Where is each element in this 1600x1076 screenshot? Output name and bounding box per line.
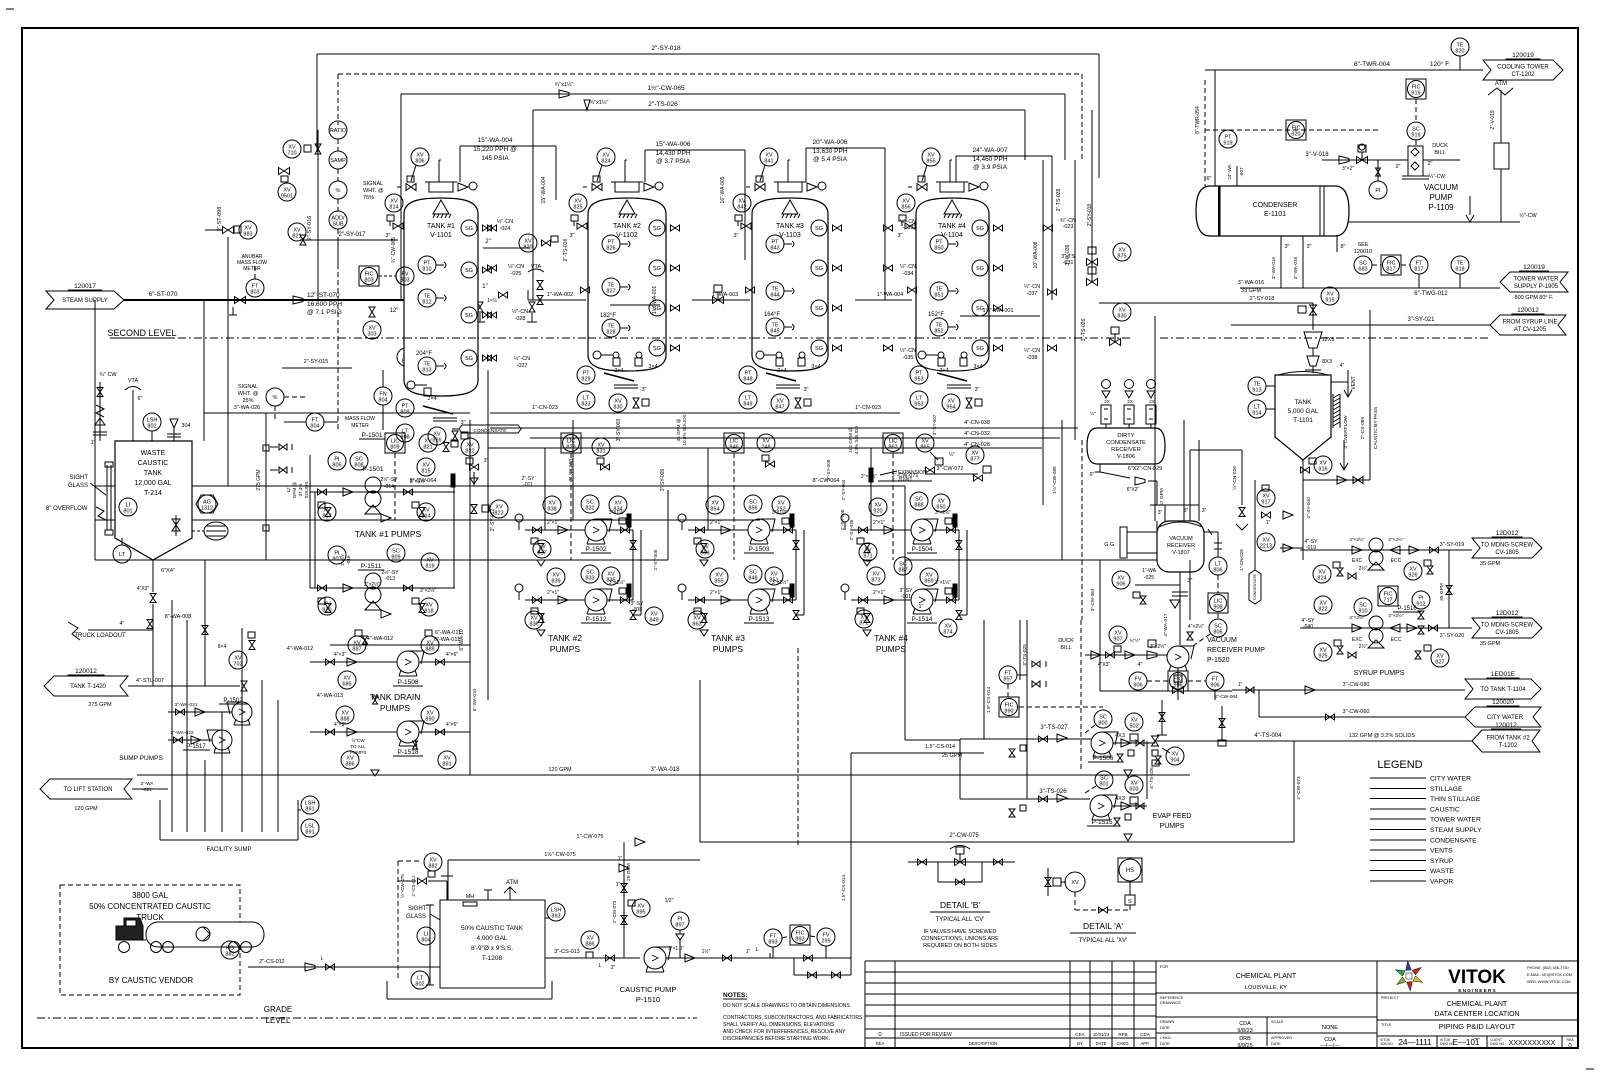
- svg-text:TANK: TANK: [144, 470, 162, 477]
- svg-text:25 GPM: 25 GPM: [626, 863, 632, 881]
- svg-text:SAMP: SAMP: [330, 158, 346, 164]
- svg-text:2"-SY-017: 2"-SY-017: [339, 232, 367, 238]
- svg-text:3"-TS-025: 3"-TS-025: [1022, 644, 1028, 666]
- svg-text:CAUSTIC PUMP: CAUSTIC PUMP: [620, 985, 677, 994]
- wire 2"-TS-026 run: [533, 101, 1025, 300]
- svg-text:SOLIDS: SOLIDS: [304, 482, 309, 499]
- svg-text:603: 603: [1129, 787, 1138, 793]
- instrument RATIO: [329, 121, 347, 139]
- pump P-1502: [581, 519, 612, 553]
- svg-text:821: 821: [292, 234, 301, 240]
- svg-text:4"×2½": 4"×2½": [1188, 623, 1204, 630]
- wire 4-TS-004: [1152, 733, 1473, 746]
- svg-text:WASTE: WASTE: [141, 450, 166, 457]
- svg-text:831: 831: [596, 449, 605, 455]
- wire CN-026: [1190, 450, 1248, 560]
- instrument PT-829: [577, 366, 595, 384]
- instrument FT-817: [1401, 256, 1428, 288]
- sight glass SG: [972, 340, 1003, 356]
- svg-text:3"-TS-026: 3"-TS-026: [1039, 789, 1067, 795]
- svg-text:SIGHT-: SIGHT-: [408, 906, 428, 912]
- svg-text:1": 1": [746, 949, 751, 955]
- riser tank4 pumps: [851, 448, 871, 530]
- svg-text:1": 1": [618, 856, 623, 862]
- svg-text:4"-CN-032: 4"-CN-032: [964, 431, 990, 437]
- svg-text:3"×1½": 3"×1½": [609, 509, 625, 516]
- sight glass SG: [972, 300, 1003, 316]
- svg-text:820: 820: [523, 245, 532, 251]
- instrument XV-830: [609, 394, 649, 412]
- instrument XV-927: [1415, 645, 1449, 667]
- label 2.5 syr1: [1348, 565, 1368, 579]
- svg-text:890: 890: [425, 717, 434, 723]
- svg-text:L: L: [321, 956, 324, 962]
- svg-text:4"×2½": 4"×2½": [1349, 614, 1365, 621]
- svg-text:1": 1": [482, 284, 487, 290]
- svg-text:889: 889: [425, 647, 434, 653]
- instrument XV-872: [855, 610, 873, 628]
- svg-text:TANK #4: TANK #4: [874, 633, 908, 643]
- tank overflow hatch: [1333, 394, 1340, 428]
- wire 6-TWR-004: [1205, 60, 1483, 70]
- vessel TANK #3 V-1103: [752, 182, 828, 371]
- svg-text:25 GPM: 25 GPM: [942, 753, 963, 759]
- pump cluster piping TANK #4: [841, 509, 967, 636]
- svg-text:2"×1": 2"×1": [873, 590, 885, 596]
- svg-text:920: 920: [1291, 132, 1300, 138]
- svg-text:STEAM SUPPLY: STEAM SUPPLY: [1430, 827, 1482, 834]
- steam drip legs: [475, 302, 537, 322]
- label CN-033: [884, 218, 917, 231]
- reducer 3/4x1.5 on CW-065: [555, 81, 574, 98]
- instrument XV-836: [525, 611, 543, 629]
- tank top valve: [397, 176, 416, 191]
- svg-text:2": 2": [1427, 161, 1432, 167]
- svg-text:VITOK: VITOK: [1448, 967, 1506, 988]
- svg-text:1½"-WA-001: 1½"-WA-001: [651, 286, 658, 314]
- svg-text:SUPPLY P-1905: SUPPLY P-1905: [1514, 284, 1559, 290]
- svg-text:METER: METER: [351, 423, 369, 429]
- label SYRUP PUMPS: [1354, 670, 1405, 677]
- svg-text:887: 887: [898, 568, 907, 574]
- svg-text:12": 12": [390, 308, 399, 314]
- node VTA t1: [528, 264, 544, 305]
- svg-text:CAUSTIC BY PASS: CAUSTIC BY PASS: [1373, 407, 1379, 449]
- wire 2-V-019: [1490, 110, 1496, 130]
- sight glass SG: [811, 220, 842, 236]
- svg-text:P-1515: P-1515: [1092, 819, 1113, 826]
- svg-text:815: 815: [421, 469, 430, 475]
- svg-text:P-1516: P-1516: [1397, 606, 1417, 612]
- svg-text:809: 809: [390, 445, 399, 451]
- svg-text:1"-WA-002: 1"-WA-002: [547, 292, 574, 298]
- svg-text:P-1501: P-1501: [362, 432, 383, 439]
- svg-text:EXC: EXC: [1352, 637, 1363, 643]
- svg-text:E N G I N E E R S: E N G I N E E R S: [1458, 988, 1495, 993]
- svg-text:854: 854: [710, 507, 719, 513]
- instrument XV-847: [771, 394, 811, 412]
- svg-text:DATE: DATE: [1096, 1041, 1107, 1046]
- svg-text:1312: 1312: [201, 506, 213, 512]
- svg-text:½"-CN-026: ½"-CN-026: [1231, 466, 1238, 490]
- svg-text:SG: SG: [653, 266, 661, 272]
- svg-text:822: 822: [1318, 607, 1327, 613]
- vessel TANK #1 V-1101: [404, 182, 478, 396]
- svg-text:8'-9"Ø x 9'S.S.: 8'-9"Ø x 9'S.S.: [471, 945, 513, 952]
- svg-text:SG: SG: [976, 266, 984, 272]
- svg-text:6"X2"-CN-029: 6"X2"-CN-029: [1128, 466, 1162, 472]
- instrument PI-807: [328, 546, 346, 564]
- instrument XV-815: [417, 458, 435, 476]
- svg-text:3×4: 3×4: [811, 364, 820, 370]
- flow arrow CITY WATER: [1465, 699, 1541, 727]
- svg-text:120012: 120012: [1495, 722, 1517, 729]
- svg-text:BILL: BILL: [1060, 645, 1071, 651]
- label 304: [167, 419, 191, 441]
- instrument TE-827: [602, 278, 630, 296]
- T-1101 bottom line: [1303, 460, 1370, 560]
- instrument XV-837: [533, 540, 551, 558]
- svg-text:954: 954: [946, 405, 955, 411]
- instrument TE-913: [1248, 377, 1275, 395]
- svg-text:37.4%: 37.4%: [298, 483, 303, 496]
- svg-text:XV: XV: [1071, 880, 1079, 886]
- svg-text:1.5"-CS-014: 1.5"-CS-014: [841, 875, 847, 902]
- instrument PI-897b: [671, 912, 689, 958]
- svg-text:-024: -024: [499, 226, 510, 232]
- svg-text:3"-SY-020: 3"-SY-020: [1440, 633, 1465, 639]
- vert 3-SY-009: [660, 469, 668, 560]
- svg-text:3": 3": [733, 233, 738, 239]
- svg-text:845: 845: [770, 329, 779, 335]
- svg-text:CAUSTIC: CAUSTIC: [1430, 806, 1460, 813]
- svg-text:813: 813: [422, 368, 431, 374]
- label CN-035: [884, 345, 917, 361]
- vert 6-WA-010: [470, 662, 477, 732]
- svg-text:9/9/25: 9/9/25: [1237, 1043, 1252, 1049]
- svg-text:JOB NO.: JOB NO.: [1380, 1042, 1394, 1046]
- pump P-1520: [1167, 637, 1265, 671]
- svg-text:CV-1805: CV-1805: [1495, 630, 1519, 636]
- wire run y560: [95, 559, 668, 561]
- truck dashed box: [60, 885, 240, 995]
- instrument SC-809: [387, 544, 405, 562]
- label mass flow 2: [345, 416, 375, 429]
- vert 3-SY-013: [569, 459, 575, 482]
- flow arrow TO MDNG SCREW 2: [1472, 610, 1542, 647]
- svg-text:T-1202: T-1202: [1499, 743, 1518, 749]
- instrument XV-954: [942, 394, 982, 412]
- svg-text:891: 891: [305, 830, 314, 836]
- svg-text:1½"-WA-001: 1½"-WA-001: [982, 307, 1013, 314]
- svg-text:824: 824: [1317, 576, 1326, 582]
- svg-text:883: 883: [243, 232, 252, 238]
- svg-text:145 PSIA: 145 PSIA: [481, 155, 509, 162]
- pump P-1503: [744, 519, 775, 553]
- instrument XV-820: [318, 597, 336, 615]
- svg-text:824: 824: [601, 159, 610, 165]
- svg-text:2"-V-019: 2"-V-019: [1490, 110, 1496, 130]
- svg-text:TANK #2: TANK #2: [548, 633, 582, 643]
- svg-text:CONTRACTORS, SUBCONTRACTORS, A: CONTRACTORS, SUBCONTRACTORS, AND FABRICA…: [723, 1015, 863, 1021]
- agitator motor: [204, 522, 228, 540]
- condenser top nozzles: [1206, 70, 1244, 186]
- svg-text:-025: -025: [1144, 575, 1154, 581]
- svg-text:850: 850: [934, 246, 943, 252]
- svg-text:825: 825: [573, 205, 582, 211]
- svg-text:1": 1": [91, 440, 96, 446]
- label 2.5-SY-013: [364, 569, 436, 594]
- instrument SC-833: [581, 565, 599, 583]
- svg-text:-014: -014: [384, 484, 394, 490]
- label PPH tank1: [460, 137, 556, 200]
- svg-text:830: 830: [613, 405, 622, 411]
- instrument LT-914: [1248, 400, 1275, 418]
- signal text 75: [363, 181, 384, 201]
- svg-text:CDA: CDA: [1140, 1032, 1151, 1037]
- instrument XV-849: [645, 607, 663, 625]
- wire 3-WA-026: [203, 300, 205, 413]
- svg-text:685: 685: [342, 682, 351, 688]
- svg-text:ECC: ECC: [1391, 558, 1402, 564]
- wire 3-SY-021: [1231, 317, 1490, 325]
- vert 2-CW-084 dash: [1081, 440, 1083, 620]
- wire 4-SY-040: [1306, 497, 1312, 519]
- svg-text:2213: 2213: [1260, 544, 1272, 550]
- svg-text:SYRUP: SYRUP: [1430, 858, 1454, 865]
- pump P-1506: [1088, 732, 1118, 762]
- svg-text:CITY WATER: CITY WATER: [1430, 776, 1471, 783]
- svg-text:2"-SY-015: 2"-SY-015: [304, 359, 329, 365]
- instrument XV-871: [859, 543, 877, 561]
- svg-text:851: 851: [934, 293, 943, 299]
- label 3-SY-008: [631, 601, 645, 613]
- wire y740 left: [905, 486, 960, 740]
- svg-text:912: 912: [1416, 602, 1425, 608]
- label V-1807: [1167, 536, 1195, 556]
- svg-text:4": 4": [1137, 662, 1142, 668]
- wire SY-017: [300, 232, 398, 245]
- tank feed line: [950, 160, 952, 182]
- tank vent valve: [644, 182, 663, 191]
- notes block: [723, 992, 863, 1042]
- svg-text:CHKD.: CHKD.: [1116, 1041, 1129, 1046]
- svg-text:2"-CS-085: 2"-CS-085: [1360, 417, 1366, 440]
- svg-text:6"-WA-010: 6"-WA-010: [472, 688, 477, 711]
- wire mid verticals t2: [610, 286, 660, 314]
- wire dashed signal top: [338, 74, 1082, 430]
- svg-text:802: 802: [415, 982, 424, 988]
- svg-text:TO MDNG SCREW: TO MDNG SCREW: [1481, 622, 1534, 628]
- svg-text:4": 4": [119, 621, 124, 627]
- svg-text:8"-CW-064: 8"-CW-064: [410, 478, 437, 484]
- label 2.5-SY-014: [380, 476, 426, 490]
- svg-text:2×4: 2×4: [427, 396, 436, 402]
- svg-text:DESCRIPTION: DESCRIPTION: [969, 1041, 998, 1046]
- svg-text:4"-CW-073: 4"-CW-073: [1296, 776, 1302, 800]
- instrument XV-825: [569, 194, 587, 239]
- svg-text:10"-WA-008: 10"-WA-008: [1033, 241, 1039, 268]
- tank drain detail: [604, 373, 647, 393]
- vert labels CS-075: [398, 861, 420, 979]
- duck bill dashed: [1058, 620, 1081, 770]
- svg-text:847: 847: [775, 405, 784, 411]
- svg-text:1": 1": [616, 882, 621, 888]
- svg-text:2"×1": 2"×1": [547, 520, 559, 526]
- svg-text:SCALE: SCALE: [1271, 1020, 1284, 1024]
- wire 15-WA-004 vert: [541, 176, 547, 203]
- instrument PT-848: [739, 366, 757, 384]
- svg-text:DATA CENTER LOCATION: DATA CENTER LOCATION: [1434, 1011, 1519, 1018]
- instrument XV-814: [385, 194, 403, 239]
- svg-text:3"×2½": 3"×2½": [420, 587, 436, 594]
- svg-text:806: 806: [1213, 630, 1222, 636]
- vert 3-SY-007: [932, 414, 937, 435]
- caustic containment: [387, 981, 552, 999]
- svg-text:TOWER WATER: TOWER WATER: [1430, 817, 1481, 824]
- svg-text:P-1502: P-1502: [586, 546, 607, 553]
- svg-text:1"-WA-004: 1"-WA-004: [877, 292, 904, 298]
- svg-text:NONE: NONE: [1322, 1025, 1338, 1031]
- svg-text:890: 890: [1004, 709, 1013, 715]
- label V-1806: [1106, 433, 1146, 460]
- instrument SAMP: [329, 151, 347, 169]
- svg-text:877: 877: [970, 457, 979, 463]
- svg-text:841: 841: [764, 159, 773, 165]
- tank trim: [426, 905, 434, 985]
- svg-text:@ 5.4 PSIA: @ 5.4 PSIA: [813, 156, 848, 163]
- label TANK #2: [548, 633, 582, 654]
- svg-text:CONDENSATE: CONDENSATE: [1253, 573, 1257, 600]
- svg-text:1"-CN-028: 1"-CN-028: [1239, 549, 1244, 571]
- label 6-WA-011b: [435, 630, 461, 636]
- svg-text:4"-CN-028: 4"-CN-028: [964, 442, 990, 448]
- svg-text:P-1503: P-1503: [749, 546, 770, 553]
- vert 3-SY-003: [616, 419, 622, 442]
- label VTA t214: [125, 378, 143, 441]
- svg-text:VTA: VTA: [128, 378, 139, 384]
- svg-text:3"×1½": 3"×1½": [935, 509, 951, 516]
- svg-text:PUMPS: PUMPS: [550, 644, 581, 654]
- svg-text:2×4: 2×4: [939, 368, 948, 374]
- pump P-1513: [744, 589, 775, 623]
- instrument XV-865: [916, 434, 943, 473]
- label CN-025: [488, 263, 525, 277]
- sight glass SG: [461, 307, 492, 323]
- label TANK #4: [874, 633, 908, 654]
- svg-text:NOTES:: NOTES:: [723, 992, 748, 999]
- svg-text:CDA: CDA: [1239, 1021, 1251, 1027]
- svg-text:50% CONCENTRATED CAUSTIC: 50% CONCENTRATED CAUSTIC: [89, 902, 211, 911]
- syrup riser: [1439, 550, 1452, 628]
- pump P-1518: [393, 721, 424, 756]
- pump P-1511: [358, 563, 384, 610]
- svg-text:4"×2½": 4"×2½": [1349, 536, 1365, 543]
- instrument XV-821b: [419, 434, 458, 452]
- pump P-1512: [581, 589, 612, 623]
- svg-text:-033: -033: [902, 225, 913, 231]
- instrument FIC-890: [999, 684, 1103, 717]
- vacuum pump P-1109 duck bill: [1398, 146, 1460, 179]
- wire 8-WA-008 vert: [165, 560, 208, 686]
- label SUMP PUMPS: [119, 755, 163, 762]
- instrument FT-893: [764, 929, 782, 958]
- svg-text:½"-CN: ½"-CN: [1024, 347, 1040, 354]
- svg-text:CONNECTIONS, UNIONS ARE: CONNECTIONS, UNIONS ARE: [921, 936, 999, 942]
- svg-text:906: 906: [1116, 582, 1125, 588]
- svg-text:V-1101: V-1101: [430, 232, 452, 239]
- svg-text:DUCK: DUCK: [1432, 143, 1448, 149]
- instrument LIC-908: [1208, 575, 1228, 613]
- steam drip leg 1: [229, 297, 246, 316]
- P-1506 discharge: [1113, 733, 1161, 777]
- svg-text:820: 820: [1455, 49, 1464, 55]
- svg-text:4"X3": 4"X3": [137, 586, 150, 592]
- svg-text:DATE: DATE: [1160, 1042, 1170, 1046]
- svg-text:1": 1": [918, 604, 923, 610]
- svg-text:TANK T-1420: TANK T-1420: [70, 684, 106, 690]
- svg-text:LT: LT: [119, 552, 126, 558]
- svg-text:SIGNAL: SIGNAL: [363, 181, 383, 187]
- svg-text:ATM: ATM: [1495, 81, 1507, 87]
- svg-text:@ 3.9 PSIA: @ 3.9 PSIA: [973, 164, 1008, 171]
- svg-text:804: 804: [310, 424, 319, 430]
- svg-text:SG: SG: [465, 313, 473, 319]
- svg-text:TANK #1 PUMPS: TANK #1 PUMPS: [355, 529, 422, 539]
- svg-text:3"-WA-016: 3"-WA-016: [1293, 256, 1298, 279]
- VITOK logo pinwheel: [1406, 961, 1412, 970]
- grade level line: [37, 1017, 697, 1019]
- svg-text:838: 838: [547, 507, 556, 513]
- svg-text:299: 299: [821, 939, 830, 945]
- svg-text:14,460 PPH: 14,460 PPH: [972, 156, 1007, 163]
- instrument FT-804: [284, 413, 338, 431]
- svg-text:AND CHECK FOR INTERFERENCES, R: AND CHECK FOR INTERFERENCES, RESOLVE ANY: [723, 1029, 846, 1035]
- vert x1155: [1154, 316, 1156, 521]
- instrument FT-803: [246, 262, 264, 297]
- instrument XV-891: [438, 751, 456, 769]
- svg-text:CAUSTIC: CAUSTIC: [138, 460, 169, 467]
- instrument XV-877: [966, 446, 991, 481]
- instrument FT-857: [999, 666, 1027, 684]
- label 2-SY-015: [282, 359, 352, 368]
- instrument SC-888: [910, 492, 928, 510]
- svg-text:910: 910: [1358, 609, 1367, 615]
- svg-text:8"-TWR-054: 8"-TWR-054: [1195, 106, 1201, 134]
- svg-text:3": 3": [803, 387, 808, 393]
- svg-text:CONDENSATE: CONDENSATE: [1106, 440, 1146, 446]
- svg-text:852: 852: [934, 329, 943, 335]
- svg-text:2"-CW-073: 2"-CW-073: [612, 900, 617, 923]
- svg-text:CONDENSATE: CONDENSATE: [474, 428, 507, 434]
- svg-text:¾"½": ¾"½": [1130, 637, 1141, 643]
- tank top valve: [583, 176, 602, 191]
- instrument XV-882: [398, 853, 453, 900]
- svg-text:808: 808: [354, 463, 363, 469]
- instrument XV-895b: [628, 899, 650, 917]
- svg-text:683: 683: [1358, 267, 1367, 273]
- svg-text:920: 920: [873, 509, 882, 515]
- instrument FIC-920: [1286, 120, 1306, 140]
- svg-text:6"-TWG-012: 6"-TWG-012: [1414, 291, 1448, 297]
- svg-text:CHEMICAL PLANT: CHEMICAL PLANT: [1236, 973, 1297, 980]
- instrument XV-854: [706, 496, 724, 514]
- sight glass SG: [649, 260, 680, 276]
- svg-text:821: 821: [423, 445, 432, 451]
- svg-text:24—1111: 24—1111: [1399, 1038, 1432, 1047]
- svg-text:3"-V-018: 3"-V-018: [1305, 152, 1329, 158]
- label TS-031: [1061, 247, 1097, 266]
